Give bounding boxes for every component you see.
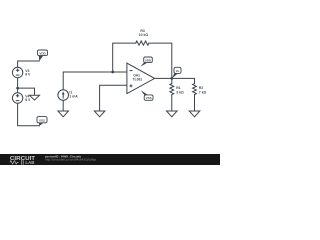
ground (non-inverting input)	[94, 111, 105, 117]
ground (below R2)	[189, 111, 200, 117]
svg-text:http://circuitlab.com/c/84cb43: http://circuitlab.com/c/84cb432y5d6gt	[45, 158, 96, 162]
net flag VSS (op-amp negative supply)	[141, 90, 153, 100]
wire op-amp output to R2	[155, 78, 195, 83]
wire non-inverting input to ground	[100, 85, 127, 111]
svg-text:TL081: TL081	[133, 77, 143, 81]
wire V3 to V4	[17, 78, 19, 93]
footer bar	[0, 154, 220, 165]
wire VSS stub from V4	[18, 103, 40, 126]
ground (below R1)	[167, 111, 178, 117]
label V4 value	[25, 94, 31, 102]
label I1 value	[69, 91, 78, 99]
junction at output node	[170, 77, 173, 80]
svg-text:VDD: VDD	[39, 52, 46, 56]
voltage source V4	[12, 93, 22, 103]
ground (below I1)	[58, 111, 69, 117]
svg-text:VSS: VSS	[39, 118, 45, 122]
label R1 value	[176, 86, 184, 95]
wire from V3/V4 midpoint to ground	[18, 88, 35, 95]
wire R3 to output node	[149, 43, 172, 78]
op-amp OA1	[127, 63, 155, 94]
resistor R2	[193, 84, 197, 95]
svg-text:3 kΩ: 3 kΩ	[176, 90, 184, 94]
svg-text:LAB: LAB	[25, 160, 34, 165]
net flag VDD (op-amp positive supply)	[140, 57, 152, 67]
resistor R3	[136, 41, 149, 45]
voltage source V3	[12, 67, 22, 77]
net flag VSS (at V4)	[37, 117, 47, 126]
wire I1 to inverting input node	[63, 72, 127, 90]
label R2 value	[199, 86, 207, 95]
svg-text:Vo: Vo	[176, 69, 180, 73]
wire R2 to ground	[194, 95, 196, 112]
svg-text:R1: R1	[176, 86, 180, 90]
resistor R1	[170, 84, 174, 95]
wire feedback riser from inverting node to R3	[113, 43, 136, 72]
svg-text:R2: R2	[199, 86, 203, 90]
svg-text:VDD: VDD	[145, 59, 152, 63]
net flag VDD (at V3)	[38, 50, 48, 61]
wire output node to R1	[171, 78, 173, 83]
svg-text:7 kΩ: 7 kΩ	[199, 90, 207, 94]
svg-text:10 kΩ: 10 kΩ	[139, 33, 149, 37]
junction at inverting input node	[111, 71, 114, 74]
svg-text:6 V: 6 V	[25, 73, 31, 77]
wire VDD stub from V3	[18, 61, 40, 67]
ground (between V3 and V4)	[30, 95, 40, 100]
current source I1	[58, 90, 69, 101]
footer logo resistor-capacitor symbol	[10, 160, 23, 165]
svg-text:VSS: VSS	[146, 96, 152, 100]
svg-text:6 V: 6 V	[25, 98, 31, 102]
junction between V3 and V4	[16, 87, 19, 90]
net flag Vo (output node)	[172, 67, 181, 78]
label R3 value	[139, 29, 149, 37]
wire R1 to ground	[171, 95, 173, 112]
label V3 value	[25, 69, 31, 77]
label OA1	[133, 73, 143, 81]
wire I1 to ground	[62, 100, 64, 111]
svg-text:1 mA: 1 mA	[69, 94, 78, 98]
